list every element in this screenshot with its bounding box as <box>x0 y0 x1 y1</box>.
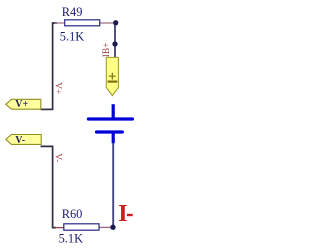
wire: bottom horizontal to R60 left (maroon) <box>55 227 64 229</box>
wire: right vertical from node A down into pin <box>114 23 116 59</box>
port V- (yellow flag) <box>6 135 41 145</box>
wire: top-left L from corner down to V+ stub <box>52 23 54 109</box>
svg-text:V+: V+ <box>52 82 62 94</box>
svg-text:I: I <box>118 201 127 227</box>
battery top plate <box>88 117 132 120</box>
svg-text:5.1K: 5.1K <box>59 232 83 246</box>
wire: R60 right to bottom junction (maroon) <box>100 226 112 228</box>
pin polarity bar <box>108 80 118 82</box>
wire: V+ port stub <box>41 108 54 110</box>
battery BT1 top lead <box>112 104 115 118</box>
svg-text:R49: R49 <box>62 5 83 19</box>
svg-text:IB+: IB+ <box>102 42 112 57</box>
wire: top corner piece <box>52 22 57 24</box>
svg-text:5.1K: 5.1K <box>60 30 84 44</box>
svg-text:R60: R60 <box>62 207 83 221</box>
svg-text:V-: V- <box>15 135 25 146</box>
node B junction dot (pin tap) <box>112 41 117 46</box>
pin polarity + mark <box>109 73 116 80</box>
node A junction dot (top right) <box>113 20 118 25</box>
resistor R60 <box>64 224 99 230</box>
svg-text:V-: V- <box>53 153 63 162</box>
wire: battery bottom lead down to bottom junction <box>112 142 114 227</box>
wire: R49 right to junction (maroon) <box>100 22 115 24</box>
battery bottom stub <box>112 133 115 143</box>
svg-text:V+: V+ <box>15 99 28 110</box>
resistor R49 <box>65 20 100 26</box>
wire: top horizontal to R49 left (maroon) <box>55 22 65 24</box>
battery bottom plate <box>97 130 123 133</box>
bottom junction dot <box>110 225 115 230</box>
port V+ (yellow flag) <box>6 99 41 109</box>
wire: V- port stub and left vertical down to bottom corner <box>41 146 57 227</box>
battery + terminal pin (yellow pentagon) <box>106 57 118 95</box>
